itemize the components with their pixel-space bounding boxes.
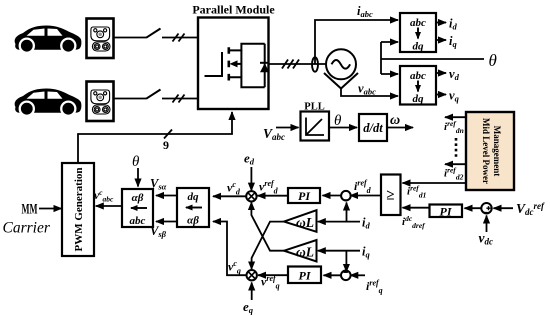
svg-text:Vdcref: Vdcref [516, 201, 545, 217]
label V_s_alpha [150, 177, 167, 192]
label i_q (feedback) [362, 245, 370, 260]
svg-text:θ: θ [489, 51, 497, 70]
diode D1 [260, 44, 269, 87]
connector box 2 [87, 82, 114, 122]
svg-text:αβ: αβ [132, 192, 144, 204]
wire omega out [387, 127, 413, 129]
amplifier wL2 [284, 240, 317, 262]
label v_dc [479, 231, 494, 247]
label theta (PLL out) [334, 113, 342, 129]
wire PI_q to junction2 [258, 274, 288, 276]
wire wL2 to junction1 (cross) [251, 202, 284, 251]
svg-text:≥: ≥ [386, 188, 394, 204]
arrow inside block1 [417, 28, 419, 39]
wire v_dc in [486, 216, 488, 233]
svg-text:Management: Management [492, 126, 502, 177]
label i_ref_d2 [444, 166, 464, 182]
label V_s_beta [150, 224, 167, 239]
block PI (dc) [430, 205, 463, 218]
label v_ref_d [259, 179, 279, 196]
label i_d (feedback) [362, 216, 370, 231]
svg-text:iq: iq [449, 34, 457, 49]
wire i_q dropper [345, 251, 347, 272]
svg-text:9: 9 [163, 138, 169, 152]
svg-text:iq: iq [362, 245, 370, 260]
label e_q [243, 299, 254, 315]
connector plug 2 [91, 90, 110, 114]
label i_ref_q [366, 279, 383, 296]
wire i_ref_q in [350, 274, 365, 276]
svg-text:θ: θ [132, 154, 140, 170]
label v_q [449, 89, 460, 104]
wire Vdc_ref in [494, 207, 514, 209]
svg-text:id: id [449, 17, 457, 32]
PLL ramp glyph [306, 118, 324, 136]
block abc->dq (voltage) [400, 66, 436, 105]
svg-text:idcdref: idcdref [402, 214, 426, 230]
svg-text:PI: PI [299, 269, 312, 283]
wire V_s_beta [156, 221, 177, 223]
svg-text:abc: abc [410, 70, 426, 82]
svg-text:abc: abc [130, 215, 146, 227]
arrow inside ab/abc [131, 207, 147, 209]
wire i_d out [436, 22, 446, 24]
slash marks wire2 [173, 95, 185, 103]
wire sum_q to PI_q [324, 274, 342, 276]
connector plug 1 [91, 27, 110, 51]
grid funnel [324, 73, 358, 89]
svg-text:αβ: αβ [187, 215, 199, 227]
slash mark gate [164, 130, 172, 139]
svg-text:dq: dq [413, 41, 425, 53]
svg-text:vrefd: vrefd [259, 179, 279, 196]
slash marks wire1 [173, 34, 185, 42]
wire e_q [251, 283, 253, 301]
svg-text:vdc: vdc [479, 231, 494, 247]
wire v_abc [341, 89, 398, 97]
svg-text:irefd: irefd [354, 179, 372, 196]
amplifier wL1 [284, 210, 317, 232]
block PI (d-axis) [288, 188, 320, 203]
svg-text:vcabc: vcabc [94, 188, 114, 204]
svg-text:ωL: ωL [296, 215, 314, 230]
wire theta to block1 [381, 41, 398, 43]
label V_abc (PLL input) [263, 126, 285, 142]
summing node q [341, 271, 351, 281]
svg-text:d/dt: d/dt [363, 121, 383, 135]
svg-text:dq: dq [188, 191, 200, 203]
wire PLL to d/dt [329, 127, 357, 129]
block d/dt [359, 114, 387, 141]
svg-text:abc: abc [410, 17, 426, 29]
wire theta to block2 [381, 73, 398, 75]
wire sum_d to PI_d [323, 195, 342, 197]
label v_c_abc [94, 188, 114, 204]
svg-text:Mid Level Power: Mid Level Power [481, 118, 491, 184]
label 9 [163, 138, 169, 152]
wire i_ref_d1 [403, 182, 467, 184]
slash marks (3-phase) [282, 60, 299, 69]
label i_ref_d [354, 179, 372, 196]
switch S1 [146, 29, 161, 38]
svg-text:irefq: irefq [366, 279, 383, 296]
svg-text:MM: MM [22, 202, 38, 218]
car 1 [15, 26, 82, 54]
wire max to sum_d [350, 195, 381, 197]
svg-text:irefd2: irefd2 [444, 166, 464, 182]
svg-text:dq: dq [413, 93, 425, 105]
svg-text:vabc: vabc [358, 82, 376, 97]
svg-text:irefdn: irefdn [444, 119, 464, 135]
svg-text:PLL: PLL [304, 102, 324, 113]
svg-text:PI: PI [440, 205, 453, 219]
svg-text:iabc: iabc [357, 4, 373, 19]
label v_c_q [228, 259, 241, 276]
svg-text:vcd: vcd [227, 180, 241, 197]
label v_ref_q [261, 274, 280, 291]
wire e_d [250, 167, 252, 191]
wire junction1 to dq/ab [213, 195, 246, 197]
svg-text:Carrier: Carrier [3, 220, 51, 237]
label i_ref_dn [444, 119, 464, 135]
wire i_q [318, 250, 360, 252]
wire i_d riser [346, 203, 348, 222]
wire V_s_alpha [156, 195, 177, 197]
svg-text:vq: vq [449, 89, 460, 104]
svg-text:ω: ω [390, 113, 400, 128]
label PLL [304, 102, 324, 113]
block max (>=) [381, 175, 401, 216]
wire i_abc [315, 20, 398, 64]
svg-text:irefd1: irefd1 [407, 184, 426, 200]
summing node Vdc [481, 203, 491, 213]
wire gate (9) [78, 112, 232, 163]
label omega [390, 113, 400, 128]
block PI (q-axis) [288, 267, 321, 284]
label i_abc [357, 4, 373, 19]
junction node 1 (d) [246, 191, 256, 201]
wire: plug1 to module [114, 37, 199, 39]
label i_dc_dref [402, 214, 426, 230]
wire wL1 to junction2 (cross) [252, 222, 284, 270]
label Parallel Module [192, 3, 275, 17]
label V_dc_ref [516, 201, 545, 217]
junction node 2 (q) [247, 270, 257, 280]
svg-text:id: id [362, 216, 370, 231]
AC source (grid) [326, 49, 356, 79]
label i_q [449, 34, 457, 49]
wire: module AC output [269, 63, 327, 65]
block dq->alphabeta [177, 188, 209, 227]
switch S2 [146, 90, 161, 99]
block PWM Generation [62, 163, 94, 256]
svg-text:PWM Generation: PWM Generation [73, 167, 85, 251]
wire PI to max [403, 207, 430, 209]
svg-text:vd: vd [449, 67, 460, 82]
wire carrier to PWM [39, 208, 62, 210]
dotted line [455, 138, 458, 158]
label v_c_d [227, 180, 241, 197]
arrow inside dq/ab [186, 207, 202, 209]
wire: plug2 to module [114, 98, 199, 100]
wire i_q out [436, 39, 446, 41]
svg-text:Parallel Module: Parallel Module [192, 3, 275, 17]
car 2 [15, 89, 82, 117]
wire i_d [318, 221, 360, 223]
label i_ref_d1 [407, 184, 426, 200]
block: Parallel Module [198, 18, 269, 110]
svg-text:ed: ed [244, 151, 255, 167]
label theta (ab/abc) [132, 154, 140, 170]
svg-text:vrefq: vrefq [261, 274, 280, 291]
wire junction2 to dq/ab (L) [213, 222, 247, 276]
label theta right [489, 51, 497, 70]
node theta vertical link [380, 42, 382, 74]
svg-text:θ: θ [334, 113, 342, 129]
wire v_d out [436, 72, 446, 74]
wire V_abc to PLL [276, 127, 299, 129]
wire i_ref_dn [445, 116, 466, 118]
transistor Q1 (MOSFET) [205, 44, 265, 87]
label i_d [449, 17, 457, 32]
label e_d [244, 151, 255, 167]
wire theta to ab/abc [137, 168, 139, 187]
block PLL [301, 112, 330, 141]
wire theta bus [381, 58, 484, 60]
label Carrier [3, 220, 51, 237]
connector box 1 [87, 19, 114, 59]
wire v_c_abc [96, 205, 122, 207]
block Mid Level Power Management [466, 112, 514, 190]
svg-text:eq: eq [243, 299, 254, 315]
block abc->dq (current) [400, 13, 436, 52]
summing node d [341, 191, 351, 201]
wire v_q out [436, 94, 446, 96]
block alphabeta->abc [122, 189, 153, 227]
svg-text:ωL: ωL [296, 245, 314, 260]
label v_abc [358, 82, 376, 97]
arrow inside block2 [417, 81, 419, 92]
svg-text:PI: PI [298, 189, 311, 203]
label v_d [449, 67, 460, 82]
sensor ellipse [312, 57, 318, 71]
wire circle to PI [465, 207, 482, 209]
wire i_ref_d2 [445, 163, 466, 165]
carrier waveform [22, 202, 38, 218]
svg-text:vcq: vcq [228, 259, 241, 276]
wire PI_d to junction1 [258, 195, 288, 197]
